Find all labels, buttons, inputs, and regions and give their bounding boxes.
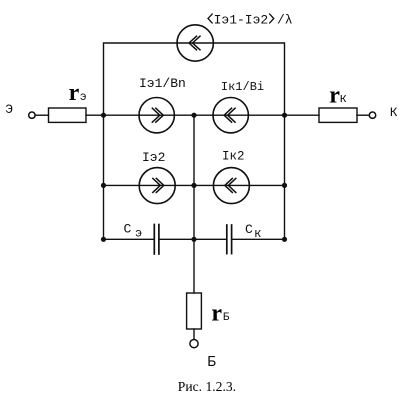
svg-text:э: э (135, 227, 142, 241)
wire left vertical (103, 115, 105, 239)
node dot row2 right (282, 183, 287, 188)
capacitor Cк (226, 225, 228, 254)
wire top-right loop (213, 43, 284, 115)
wire rб to terminal Б (193, 329, 195, 339)
wire cap row left (104, 238, 154, 240)
wire row1 mid (139, 114, 213, 116)
svg-text:r: r (69, 80, 80, 106)
svg-text:/λ: /λ (277, 12, 293, 27)
svg-text:Iк2: Iк2 (222, 149, 245, 163)
wire node to rк (285, 114, 320, 116)
wire rк to terminal К (357, 114, 369, 116)
svg-text:Iк1/Bi: Iк1/Bi (221, 80, 264, 94)
node dot cap row mid (191, 237, 196, 242)
wire top-left loop (104, 43, 178, 115)
terminal Э (29, 112, 35, 118)
wire middle vertical (193, 115, 195, 293)
svg-text:к: к (254, 227, 262, 241)
svg-text:Б: Б (207, 355, 216, 371)
node dot row2 mid (191, 183, 196, 188)
svg-text:Iэ1-Iэ2: Iэ1-Iэ2 (214, 12, 269, 27)
wire rэ to node (86, 114, 139, 116)
current source (Iэ1-Iэ2)/λ (177, 25, 213, 61)
svg-text:Iэ1/Bn: Iэ1/Bn (139, 76, 186, 91)
wire cap row right (232, 238, 284, 240)
resistor rб (187, 293, 202, 329)
svg-text:Э: Э (5, 102, 13, 117)
node dot row1 right (282, 113, 287, 118)
svg-text:к: к (339, 92, 347, 106)
wire terminal to rэ (35, 114, 48, 116)
current source Iк2 (213, 168, 249, 204)
svg-text:C: C (124, 221, 132, 236)
node dot cap row right (282, 237, 287, 242)
svg-text:К: К (390, 105, 398, 120)
svg-text:Б: Б (223, 312, 230, 324)
svg-text:Iэ2: Iэ2 (142, 150, 165, 165)
resistor rк (319, 108, 357, 122)
svg-text:Рис. 1.2.3.: Рис. 1.2.3. (178, 379, 236, 394)
terminal Б (190, 340, 198, 348)
label (Iэ1-Iэ2)/λ (208, 14, 274, 24)
current source Iк1/Bi (213, 98, 248, 133)
wire row2 (104, 184, 285, 186)
svg-text:э: э (80, 91, 87, 104)
capacitor Cэ (153, 225, 155, 255)
node dot row2 left (101, 183, 106, 188)
wire right vertical (284, 115, 286, 239)
svg-text:r: r (211, 300, 222, 326)
current source Iэ1/Bn (139, 98, 174, 133)
terminal К (369, 112, 375, 118)
resistor rэ (49, 108, 87, 122)
node dot cap row left (101, 237, 106, 242)
wire row1 right (213, 114, 285, 116)
current source Iэ2 (139, 168, 175, 204)
wire cap row mid (160, 238, 226, 240)
wire through top source (177, 42, 213, 44)
svg-text:C: C (245, 222, 253, 237)
node dot row1 left (101, 113, 106, 118)
node dot row1 mid (191, 113, 196, 118)
